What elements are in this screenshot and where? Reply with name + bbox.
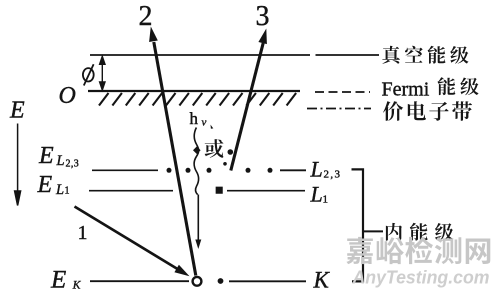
svg-text:E: E	[50, 267, 66, 292]
arrow 2 (emission from K)	[149, 27, 196, 276]
svg-text:L: L	[56, 153, 65, 169]
svg-text:E: E	[37, 172, 53, 198]
Fermi level leader dashes	[315, 91, 370, 93]
L1 level line	[89, 188, 305, 193]
svg-text:L: L	[55, 182, 64, 198]
svg-text:ν: ν	[202, 117, 207, 129]
svg-text:L: L	[310, 182, 323, 207]
photon squiggle	[194, 128, 199, 195]
svg-text:1: 1	[323, 194, 329, 206]
svg-text:L: L	[310, 157, 323, 182]
svg-text:K: K	[72, 280, 82, 292]
svg-text:AnyTesting.com: AnyTesting.com	[352, 267, 490, 288]
svg-text:2,3: 2,3	[324, 169, 342, 181]
arrow 3 (emission from L2,3)	[231, 29, 267, 171]
label 内能级	[386, 223, 402, 241]
inner levels bracket	[352, 169, 384, 281]
diamond dot on squiggle	[193, 146, 201, 154]
svg-text:h: h	[190, 109, 199, 128]
svg-text:K: K	[313, 268, 331, 292]
transition arrow 1	[75, 207, 190, 277]
valence band leader dash-dot	[307, 108, 371, 110]
E axis downward arrow	[15, 124, 21, 206]
watermark 嘉峪检测网	[346, 237, 373, 264]
svg-text:1: 1	[78, 222, 88, 244]
K level line	[90, 277, 306, 286]
svg-text:3: 3	[256, 1, 270, 32]
Fermi level hatching	[99, 93, 296, 106]
svg-text:E: E	[38, 143, 54, 169]
work function phi symbol	[83, 64, 94, 85]
work function double arrow	[100, 56, 105, 90]
svg-text:E: E	[9, 98, 25, 124]
Fermi level line	[88, 90, 300, 92]
L2,3 level line	[92, 162, 306, 173]
svg-text:2,3: 2,3	[66, 159, 80, 170]
svg-text:Fermi: Fermi	[382, 79, 430, 101]
svg-text:2: 2	[139, 1, 153, 32]
label 真空能级	[382, 46, 400, 64]
photon absorption arrow down to K shell	[195, 195, 201, 250]
label 或	[205, 139, 224, 158]
label 价电子带	[383, 101, 403, 121]
svg-text:O: O	[59, 83, 76, 109]
svg-text:1: 1	[65, 186, 70, 197]
vacuum level line	[90, 54, 379, 56]
dot right of 或	[228, 149, 234, 155]
